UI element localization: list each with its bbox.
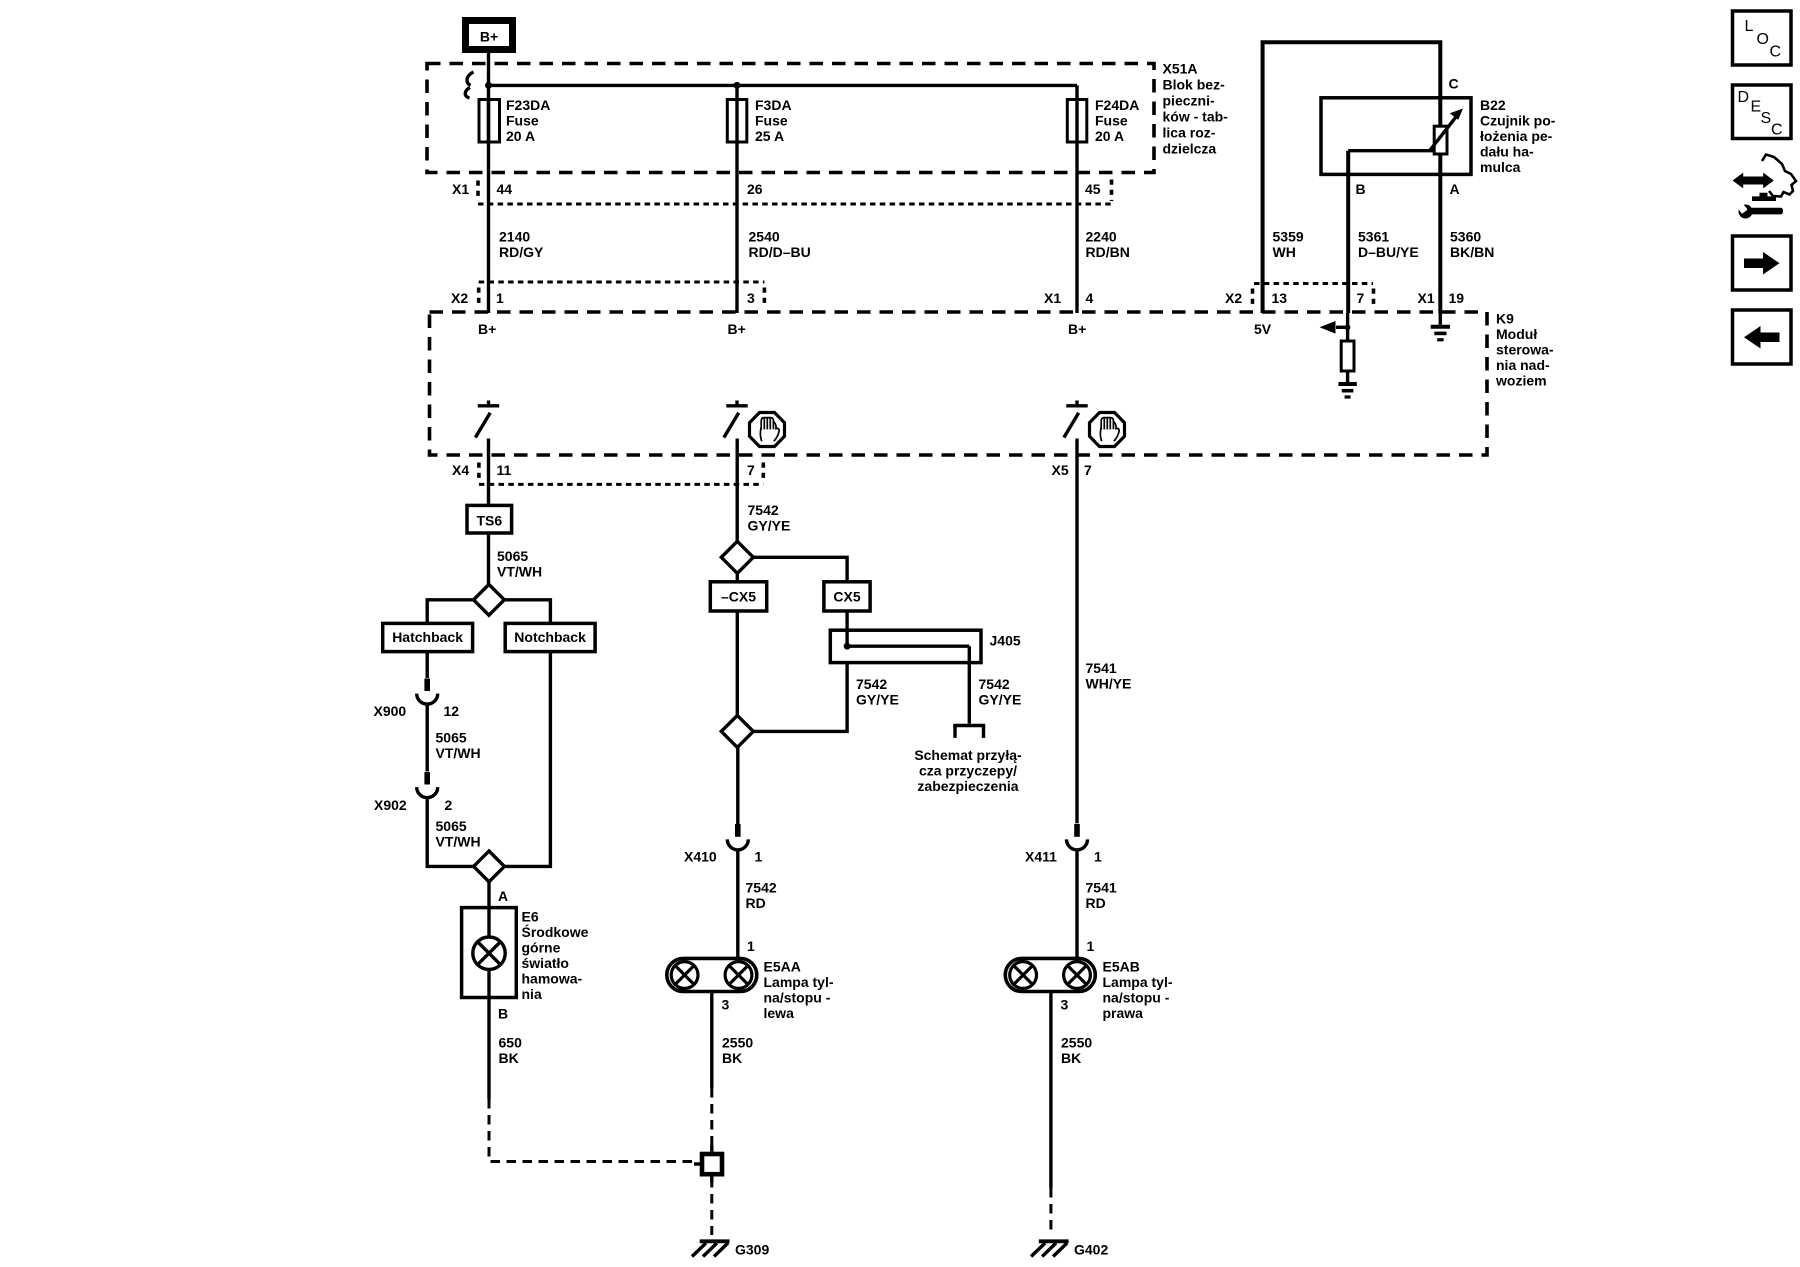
wire X411 to E5AB, 7541 RD — [1075, 849, 1078, 959]
battery feed B+ — [466, 21, 513, 50]
svg-text:G309: G309 — [735, 1242, 769, 1258]
svg-text:5359: 5359 — [1273, 229, 1304, 245]
svg-text:F3DA: F3DA — [755, 97, 792, 113]
svg-text:X900: X900 — [374, 703, 407, 719]
svg-text:E5AA: E5AA — [764, 959, 801, 975]
svg-text:2240: 2240 — [1086, 229, 1117, 245]
svg-text:7: 7 — [1357, 290, 1365, 306]
svg-text:5065: 5065 — [436, 818, 467, 834]
svg-text:7541: 7541 — [1086, 880, 1117, 896]
svg-text:X2: X2 — [451, 290, 468, 306]
wire X410 to E5AA, 7542 RD — [736, 849, 739, 959]
wire diamond to -CX5 — [736, 573, 739, 582]
wire dashed to G402 — [1049, 1188, 1052, 1235]
svg-text:łożenia pe-: łożenia pe- — [1480, 128, 1553, 144]
svg-text:5065: 5065 — [436, 730, 467, 746]
svg-text:K9: K9 — [1496, 311, 1514, 327]
sensor supply wire pin13 to C — [1263, 42, 1441, 313]
wire B+ to fuse bus — [487, 53, 490, 142]
svg-text:F23DA: F23DA — [506, 97, 550, 113]
svg-text:na/stopu -: na/stopu - — [764, 990, 831, 1006]
option box Hatchback — [383, 623, 473, 651]
svg-text:WH/YE: WH/YE — [1086, 676, 1132, 692]
svg-text:B+: B+ — [1068, 321, 1086, 337]
wire fuse F3DA to connector — [735, 85, 738, 313]
svg-text:światło: światło — [522, 955, 569, 971]
svg-text:–CX5: –CX5 — [721, 589, 756, 605]
svg-text:RD: RD — [746, 895, 766, 911]
svg-text:L: L — [1745, 18, 1754, 35]
node junction at F3DA — [734, 82, 741, 89]
svg-text:VT/WH: VT/WH — [497, 564, 542, 580]
wire switch S1 down through X4 — [487, 439, 490, 506]
svg-text:7542: 7542 — [856, 676, 887, 692]
body control module K9 dashed box — [430, 312, 1488, 455]
svg-text:ków - tab-: ków - tab- — [1163, 109, 1229, 125]
svg-text:4: 4 — [1086, 290, 1094, 306]
wire J405 left leg 7542 GY/YE — [754, 663, 848, 732]
svg-text:E6: E6 — [522, 909, 539, 925]
svg-text:13: 13 — [1272, 290, 1288, 306]
svg-text:VT/WH: VT/WH — [436, 745, 481, 761]
svg-text:Notchback: Notchback — [514, 629, 586, 645]
svg-text:C: C — [1449, 76, 1459, 92]
svg-text:Fuse: Fuse — [755, 113, 788, 129]
svg-text:11: 11 — [497, 462, 512, 478]
fuse F23DA — [479, 100, 500, 143]
connector CX5 — [824, 582, 870, 611]
node junction at B+ drop — [485, 82, 492, 89]
svg-text:X411: X411 — [1025, 849, 1057, 865]
connector X2 row of K9 (pins 1,3) — [451, 282, 764, 307]
wire splice to Notchback — [504, 600, 550, 624]
wire splice to Hatchback — [427, 600, 473, 624]
wire through E6 — [487, 908, 490, 998]
svg-text:7542: 7542 — [748, 502, 779, 518]
ground internal below resistor — [1338, 384, 1356, 397]
nav icon LOC — [1733, 11, 1792, 65]
wire E5AB ground 2550 BK — [1049, 992, 1052, 1189]
svg-text:3: 3 — [747, 290, 755, 306]
svg-text:25 A: 25 A — [755, 128, 784, 144]
svg-text:BK/BN: BK/BN — [1450, 244, 1494, 260]
wire dashed splice box to G309 — [710, 1178, 713, 1235]
svg-text:WH: WH — [1273, 244, 1296, 260]
ground G402 — [1031, 1241, 1108, 1257]
svg-text:5065: 5065 — [497, 548, 528, 564]
svg-text:S: S — [1761, 110, 1772, 127]
svg-text:RD/D–BU: RD/D–BU — [749, 244, 811, 260]
svg-text:BK: BK — [1061, 1050, 1081, 1066]
connector X4 row (pins 11,7) — [452, 462, 763, 484]
svg-text:Fuse: Fuse — [506, 113, 539, 129]
svg-text:20 A: 20 A — [506, 128, 535, 144]
svg-text:1: 1 — [496, 290, 504, 306]
svg-text:5V: 5V — [1254, 321, 1272, 337]
svg-text:A: A — [498, 888, 508, 904]
svg-text:B+: B+ — [478, 321, 496, 337]
svg-text:650: 650 — [499, 1035, 523, 1051]
svg-text:sterowa-: sterowa- — [1496, 342, 1554, 358]
wire X900 to X902, 5065 VT/WH — [426, 703, 429, 772]
connector X410 pin 1 — [684, 824, 763, 865]
svg-text:woziem: woziem — [1495, 373, 1547, 389]
svg-text:7542: 7542 — [979, 676, 1010, 692]
svg-text:Lampa tyl-: Lampa tyl- — [1103, 974, 1173, 990]
svg-text:5360: 5360 — [1450, 229, 1481, 245]
nav icon arrow next — [1733, 236, 1792, 290]
wire bus inside fuse block — [489, 84, 1078, 87]
svg-text:1: 1 — [747, 938, 755, 954]
off-page terminal to trailer harness — [953, 726, 985, 738]
svg-text:7: 7 — [1084, 462, 1092, 478]
svg-text:Środkowe: Środkowe — [522, 923, 589, 940]
lamp E5AA tail/stop left — [667, 958, 757, 991]
svg-text:nia: nia — [522, 986, 542, 1002]
svg-text:TS6: TS6 — [476, 513, 502, 529]
svg-text:1: 1 — [1087, 938, 1095, 954]
svg-text:26: 26 — [747, 181, 763, 197]
svg-text:1: 1 — [755, 849, 763, 865]
svg-text:Moduł: Moduł — [1496, 326, 1537, 342]
svg-text:Czujnik po-: Czujnik po- — [1480, 113, 1556, 129]
svg-text:X1: X1 — [1044, 290, 1061, 306]
connector -CX5 — [710, 582, 766, 611]
internal wire pin7 node — [1346, 313, 1349, 341]
svg-text:Fuse: Fuse — [1095, 113, 1128, 129]
svg-text:2550: 2550 — [1061, 1035, 1092, 1051]
splice hook symbol — [465, 72, 473, 98]
hand symbol octagon (right) — [1090, 413, 1125, 447]
lamp E5AB tail/stop right — [1005, 958, 1095, 991]
svg-text:Schemat przyłą-: Schemat przyłą- — [914, 747, 1022, 763]
splice diamond S407 upper — [721, 541, 753, 573]
fuse F3DA — [727, 100, 747, 143]
svg-text:2140: 2140 — [499, 229, 530, 245]
svg-text:X410: X410 — [684, 849, 717, 865]
svg-text:hamowa-: hamowa- — [522, 971, 583, 987]
wire dashed to ground splice box — [710, 1088, 713, 1150]
potentiometer element of B22 — [1434, 126, 1447, 154]
svg-text:X4: X4 — [452, 462, 469, 478]
svg-text:górne: górne — [522, 940, 561, 956]
switch S3 (right) — [1064, 401, 1088, 438]
svg-text:X1: X1 — [452, 181, 469, 197]
svg-text:X1: X1 — [1418, 290, 1435, 306]
svg-text:12: 12 — [444, 703, 460, 719]
svg-text:VT/WH: VT/WH — [436, 834, 481, 850]
wire switch S3 down — [1075, 439, 1078, 824]
svg-text:pieczni-: pieczni- — [1163, 93, 1215, 109]
resistor R (pulldown) — [1341, 341, 1354, 371]
wire E6 ground lead dashed to splice box — [489, 1099, 694, 1162]
svg-text:zabezpieczenia: zabezpieczenia — [917, 778, 1018, 794]
wire B to pin 7 — [1346, 151, 1350, 313]
svg-text:X5: X5 — [1052, 462, 1069, 478]
svg-text:Blok bez-: Blok bez- — [1163, 77, 1226, 93]
wire TS6 to splice — [487, 533, 490, 585]
svg-text:7: 7 — [747, 462, 755, 478]
wire Hatchback to X900 — [426, 652, 429, 678]
svg-text:prawa: prawa — [1103, 1005, 1144, 1021]
svg-text:Lampa tyl-: Lampa tyl- — [764, 974, 834, 990]
svg-text:J405: J405 — [990, 633, 1021, 649]
fuse block X51A dashed box — [427, 64, 1154, 173]
wire splice to CX5 branch — [753, 557, 847, 582]
hand symbol octagon (middle) — [750, 413, 785, 447]
wire splice to E6 pin A — [487, 882, 490, 908]
svg-text:1: 1 — [1094, 849, 1102, 865]
svg-text:X51A: X51A — [1163, 61, 1198, 77]
ground G309 — [692, 1241, 769, 1257]
sensor B22 box — [1321, 98, 1471, 175]
svg-text:3: 3 — [722, 997, 730, 1013]
svg-text:7541: 7541 — [1086, 660, 1117, 676]
wire fuse F23DA to connector — [487, 100, 490, 313]
svg-text:lica roz-: lica roz- — [1163, 125, 1216, 141]
svg-text:19: 19 — [1449, 290, 1465, 306]
svg-text:dału ha-: dału ha- — [1480, 144, 1534, 160]
connector X411 pin 1 — [1025, 824, 1102, 865]
svg-text:Hatchback: Hatchback — [392, 629, 463, 645]
splice diamond upper — [474, 584, 505, 615]
svg-text:D–BU/YE: D–BU/YE — [1358, 244, 1419, 260]
svg-text:B22: B22 — [1480, 97, 1506, 113]
switch S1 (brake apply, left) — [475, 401, 499, 438]
nav icon arrow back — [1733, 310, 1792, 364]
svg-text:2550: 2550 — [722, 1035, 753, 1051]
svg-text:nia nad-: nia nad- — [1496, 357, 1550, 373]
svg-text:mulca: mulca — [1480, 159, 1521, 175]
wire -CX5 down to lower splice — [736, 611, 739, 715]
svg-text:2: 2 — [445, 797, 453, 813]
wire CX5 to J405 — [845, 611, 848, 631]
svg-text:20 A: 20 A — [1095, 128, 1124, 144]
connector X900 pin 12 — [374, 679, 460, 720]
svg-text:E5AB: E5AB — [1103, 959, 1140, 975]
connector X2 row (pins 13,7) — [1225, 284, 1374, 307]
svg-text:2540: 2540 — [749, 229, 780, 245]
svg-text:BK: BK — [722, 1050, 742, 1066]
option box Notchback — [505, 623, 595, 651]
svg-text:B+: B+ — [480, 29, 498, 45]
svg-text:RD/GY: RD/GY — [499, 244, 544, 260]
lamp E6 box — [462, 908, 517, 998]
nav icon DESC — [1733, 85, 1792, 139]
svg-text:O: O — [1757, 31, 1769, 48]
svg-text:dzielcza: dzielcza — [1163, 141, 1217, 157]
wire fuse F24DA to connector — [1075, 85, 1078, 313]
switch S2 (middle) — [724, 401, 748, 438]
wire E5AA ground 2550 BK — [710, 992, 713, 1089]
svg-text:BK: BK — [499, 1050, 519, 1066]
svg-text:5361: 5361 — [1358, 229, 1389, 245]
svg-text:GY/YE: GY/YE — [748, 518, 791, 534]
svg-text:G402: G402 — [1074, 1242, 1108, 1258]
connector X1 row of X51A — [452, 180, 1112, 205]
svg-text:cza przyczepy/: cza przyczepy/ — [919, 763, 1017, 779]
wire X902 to lower splice, 5065 VT/WH — [427, 796, 474, 866]
svg-text:B: B — [498, 1006, 508, 1022]
svg-text:RD/BN: RD/BN — [1086, 244, 1130, 260]
nav icon wrench/diagnostic — [1733, 155, 1796, 219]
wire E6 ground lead solid — [487, 998, 490, 1100]
svg-text:7542: 7542 — [746, 880, 777, 896]
bulb symbol E6 — [473, 937, 505, 969]
wire Notchback to lower splice — [504, 652, 550, 867]
svg-text:na/stopu -: na/stopu - — [1103, 990, 1170, 1006]
wiper arm B lead — [1348, 149, 1433, 152]
svg-text:D: D — [1738, 89, 1750, 106]
svg-text:3: 3 — [1061, 997, 1069, 1013]
internal wire pin19 to ground — [1439, 313, 1442, 325]
in-line connector TS6 — [467, 505, 512, 533]
svg-text:44: 44 — [497, 181, 513, 197]
wire A through potentiometer — [1438, 98, 1442, 313]
wire switch S2 down — [736, 439, 739, 542]
svg-text:A: A — [1450, 181, 1460, 197]
ground internal pin19 — [1431, 327, 1450, 340]
svg-text:C: C — [1770, 44, 1782, 61]
ground splice box — [694, 1146, 722, 1183]
junction block J405 — [830, 630, 1021, 662]
wire J405 right leg 7542 GY/YE to trailer — [968, 646, 971, 724]
svg-text:GY/YE: GY/YE — [856, 692, 899, 708]
svg-text:X2: X2 — [1225, 290, 1242, 306]
fuse F24DA — [1067, 100, 1087, 143]
splice diamond lower — [474, 851, 505, 882]
svg-text:F24DA: F24DA — [1095, 97, 1139, 113]
svg-text:CX5: CX5 — [833, 589, 860, 605]
svg-text:GY/YE: GY/YE — [979, 692, 1022, 708]
svg-text:45: 45 — [1085, 181, 1101, 197]
internal signal arrow — [1336, 326, 1348, 329]
svg-text:C: C — [1771, 122, 1783, 139]
wire splice to X410 — [736, 747, 739, 824]
svg-text:B: B — [1356, 181, 1366, 197]
svg-text:X902: X902 — [374, 797, 407, 813]
svg-text:B+: B+ — [728, 321, 746, 337]
svg-text:lewa: lewa — [764, 1005, 795, 1021]
splice diamond lower (middle branch) — [721, 715, 753, 747]
connector X902 pin 2 — [374, 772, 453, 813]
svg-text:RD: RD — [1086, 895, 1106, 911]
